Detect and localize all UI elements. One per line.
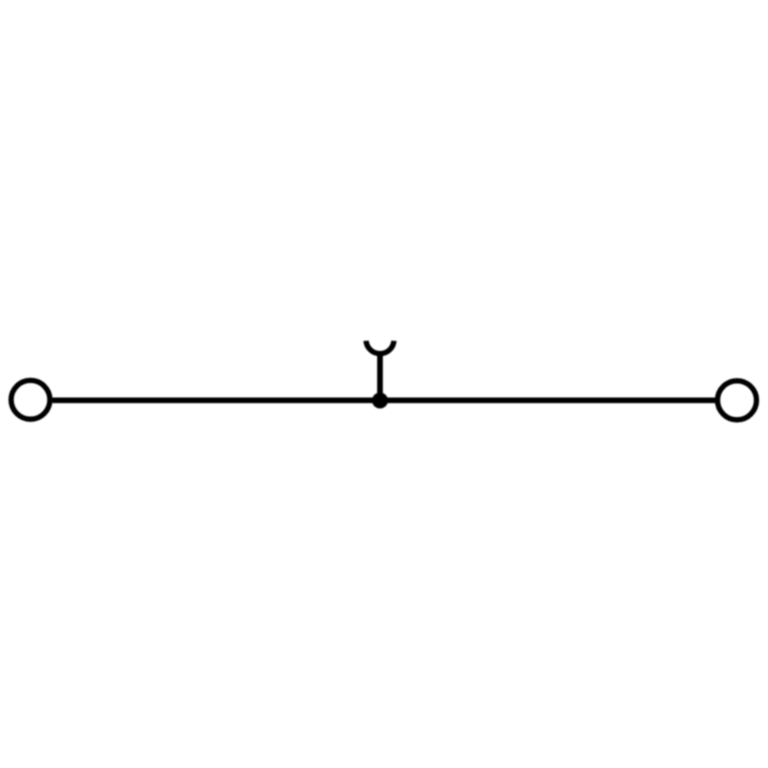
tap fork xyxy=(366,341,394,354)
wire stem xyxy=(377,353,383,401)
right terminal circle xyxy=(718,381,757,420)
left terminal circle xyxy=(11,380,50,419)
wire xyxy=(52,397,715,403)
junction dot xyxy=(372,393,388,409)
